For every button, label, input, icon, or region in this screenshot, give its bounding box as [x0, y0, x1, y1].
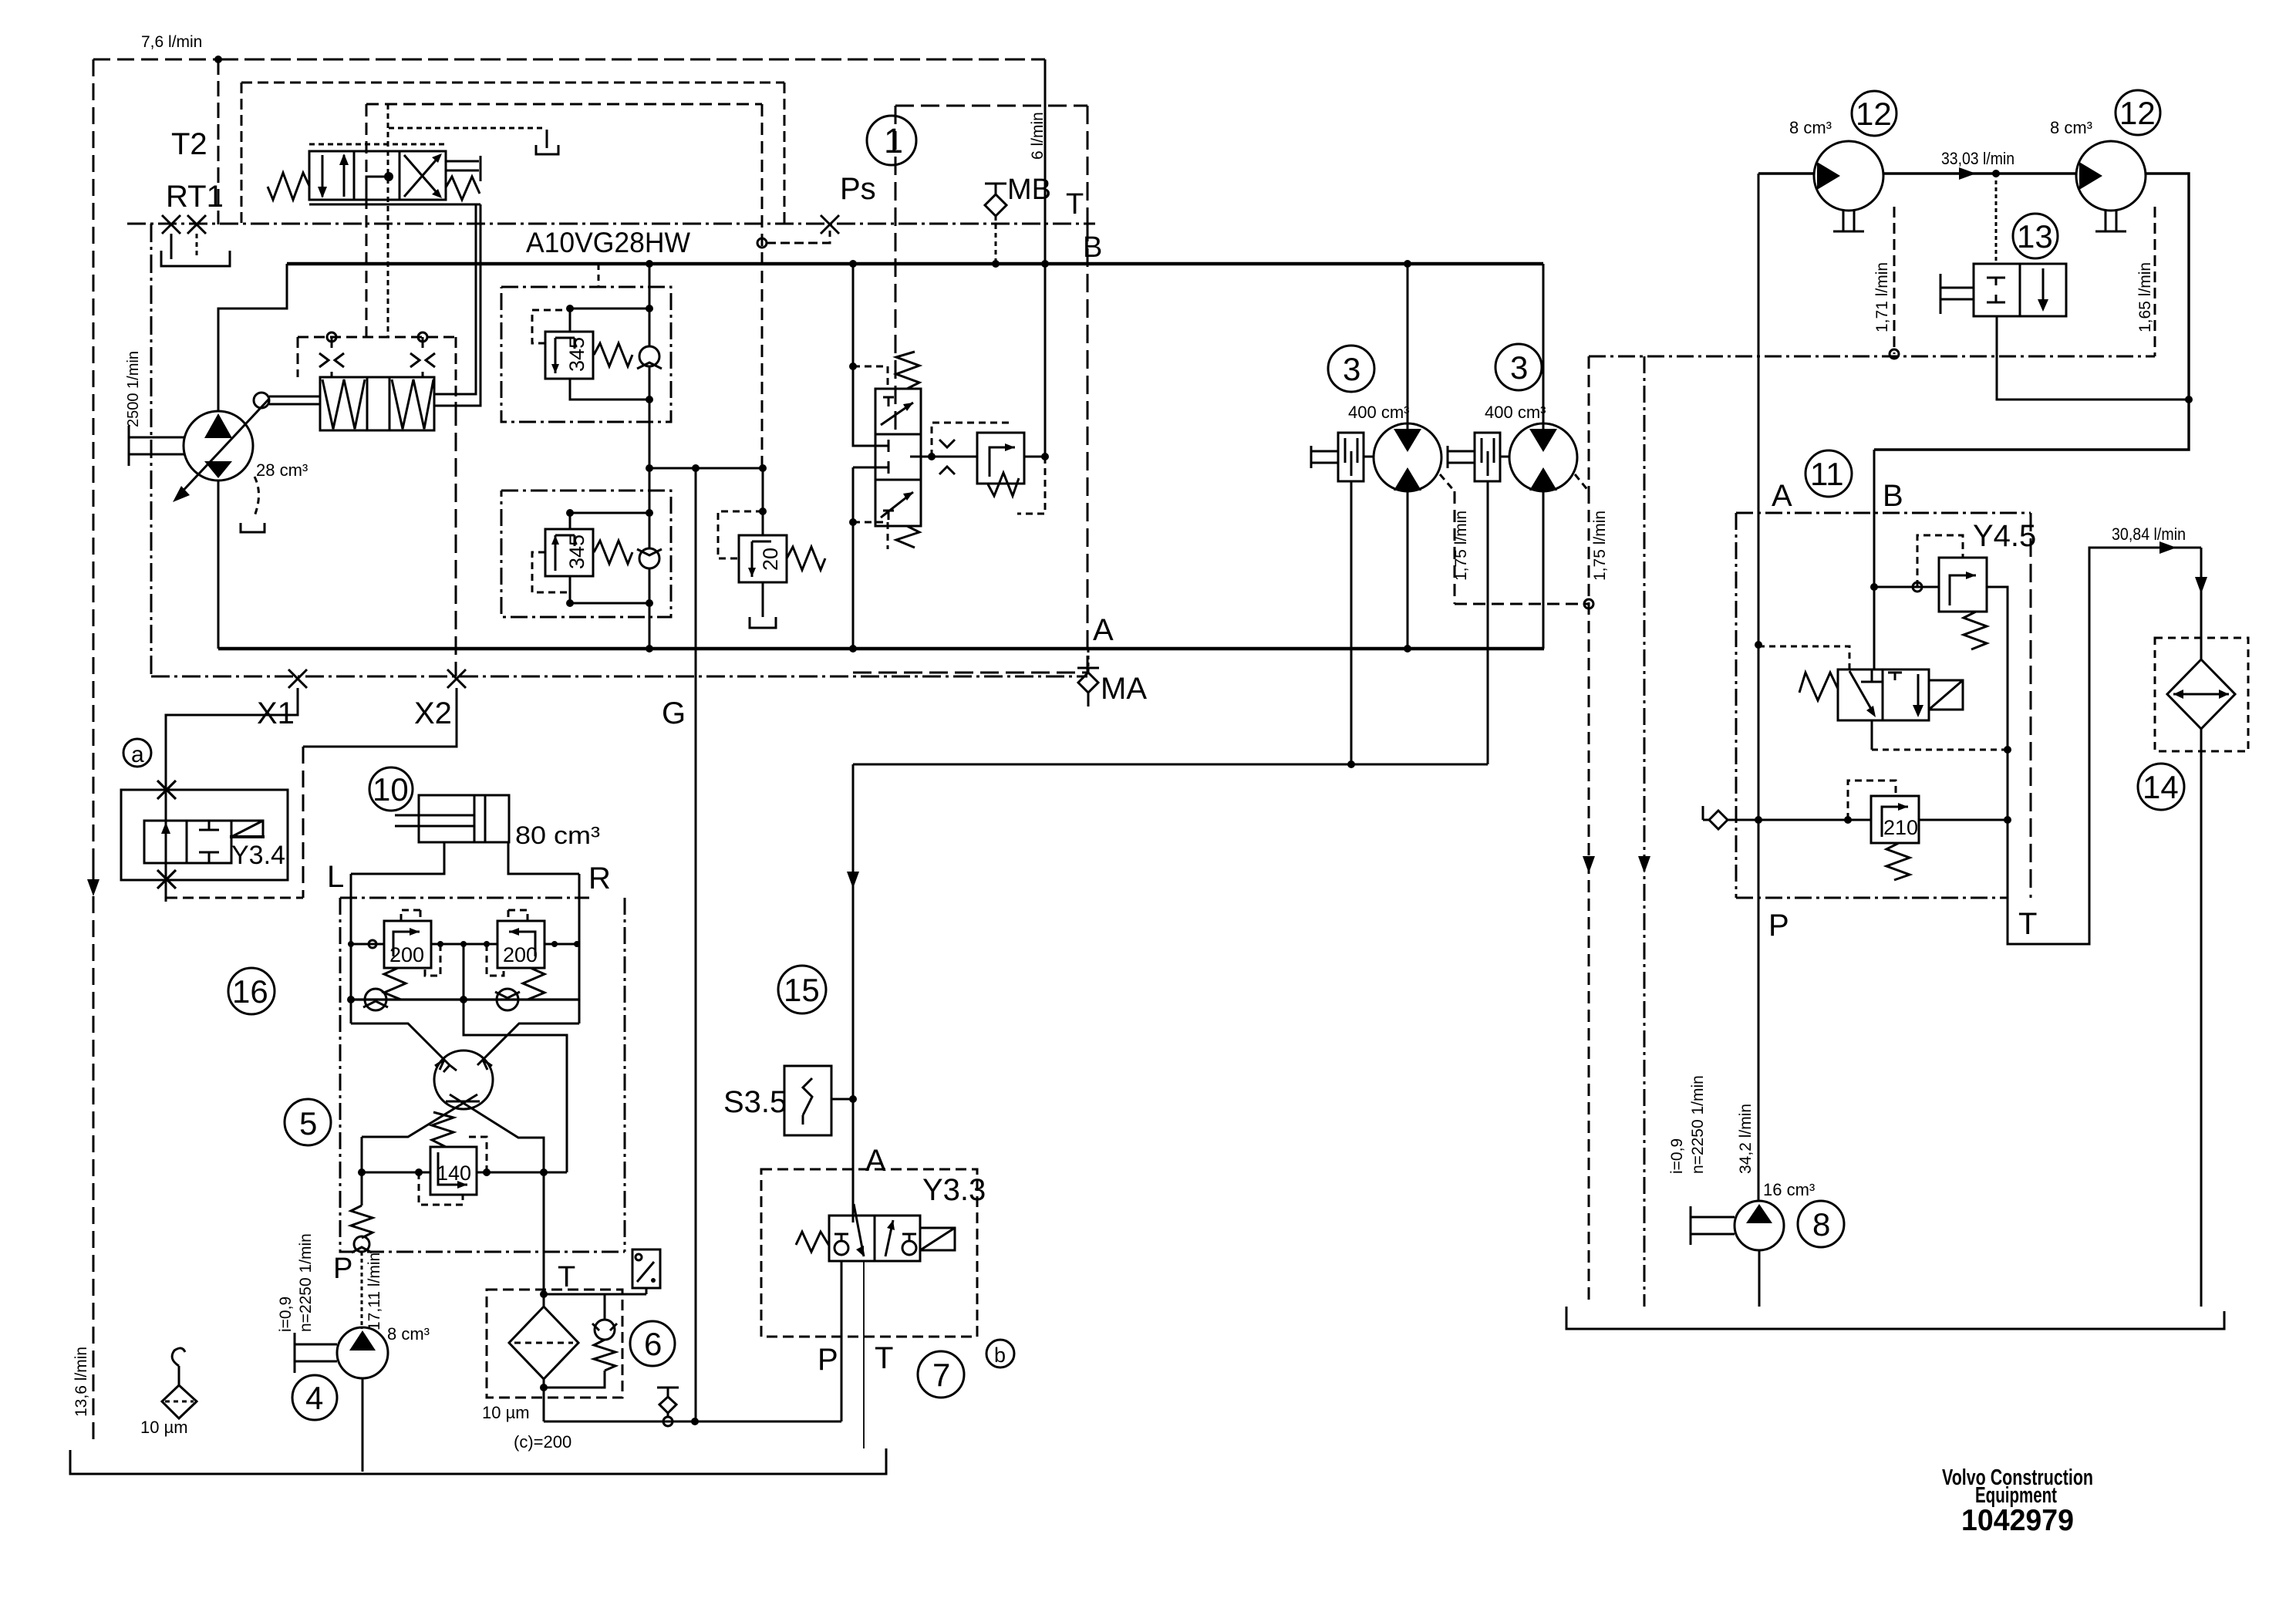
top spring	[896, 352, 919, 389]
wire: motor1 case drain	[1440, 474, 1455, 491]
component: wheel motor 1	[1374, 264, 1441, 649]
component: 3/2 solenoid valve s11	[1758, 646, 2011, 754]
svg-text:15: 15	[784, 972, 820, 1008]
wire: box 16 dash-dot boundary	[340, 898, 625, 1252]
wire: Ps pilot dashed	[767, 231, 830, 243]
right: arrow + check	[902, 1241, 916, 1255]
component: 140 relief	[358, 1112, 567, 1205]
svg-text:10 µm: 10 µm	[140, 1418, 188, 1437]
node A junction dots	[646, 645, 1411, 653]
left section arrows	[322, 155, 324, 197]
svg-text:20: 20	[759, 548, 782, 571]
check line	[351, 998, 579, 1000]
component: tank symbol top right	[389, 127, 544, 130]
component: fan drive pump 8	[1691, 1201, 1784, 1307]
wire: fine dashed box above valve	[309, 143, 446, 146]
svg-text:X1: X1	[257, 696, 295, 730]
svg-text:2500 1/min: 2500 1/min	[125, 351, 142, 427]
svg-text:10: 10	[373, 771, 409, 808]
wire: outer left dashed boundary	[93, 59, 218, 1441]
wire: bottom return line	[544, 1421, 841, 1423]
wire: pump to A line	[217, 480, 220, 649]
label circled a	[123, 739, 151, 767]
component: return filter 6	[482, 1290, 622, 1452]
center section: blocked + L path	[366, 177, 387, 199]
component: pump shaft	[129, 426, 185, 466]
svg-text:b: b	[994, 1344, 1006, 1367]
springs inside	[322, 379, 365, 429]
component: fan motor 12b	[2076, 141, 2146, 231]
svg-text:200: 200	[503, 943, 538, 966]
svg-text:A: A	[1093, 613, 1114, 647]
svg-text:G: G	[662, 696, 686, 730]
node B junction dots	[646, 260, 1411, 268]
component: MA test point	[1087, 649, 1090, 668]
svg-text:X2: X2	[414, 696, 452, 730]
component: breather 10um	[140, 1348, 197, 1437]
output to A	[853, 467, 875, 469]
component: P check valve + spring to pump4	[351, 1172, 373, 1329]
svg-text:33,03 l/min: 33,03 l/min	[1941, 149, 2014, 168]
svg-text:30,84 l/min: 30,84 l/min	[2112, 524, 2186, 544]
svg-text:1,75 l/min: 1,75 l/min	[1452, 511, 1470, 581]
svg-text:8 cm³: 8 cm³	[1789, 118, 1832, 137]
component: 20 bar boost relief	[718, 468, 825, 628]
svg-text:345: 345	[565, 534, 588, 569]
label circled 10	[369, 767, 413, 811]
wire: 12b to right down	[1874, 174, 2189, 450]
svg-text:(c)=200: (c)=200	[514, 1432, 571, 1452]
component: 345 relief + check assembly 1	[532, 264, 662, 403]
component: test point on return	[657, 1388, 679, 1397]
svg-text:140: 140	[437, 1162, 471, 1185]
svg-text:T: T	[875, 1341, 893, 1375]
wire: mid junction line to G and 20-relief	[649, 400, 763, 468]
svg-text:P: P	[818, 1343, 838, 1377]
wire: A10VG block boundary dash-dot	[127, 224, 1095, 676]
component: gearbox 2	[1448, 433, 1510, 481]
svg-text:Ps: Ps	[840, 172, 876, 206]
label circled 3 first	[1328, 346, 1374, 392]
component: steering orbital + X lines	[351, 1000, 579, 1172]
svg-text:17,11 l/min: 17,11 l/min	[366, 1253, 383, 1330]
label circled 15	[778, 966, 826, 1013]
component: steering cylinder 80cm3	[395, 795, 600, 849]
dashed pilot	[532, 310, 567, 343]
springs left	[268, 173, 309, 200]
svg-text:5: 5	[299, 1105, 317, 1141]
svg-text:13,6 l/min: 13,6 l/min	[72, 1347, 90, 1417]
svg-text:n=2250 1/min: n=2250 1/min	[297, 1233, 315, 1332]
node X2	[447, 669, 466, 688]
svg-text:1,75 l/min: 1,75 l/min	[1591, 511, 1609, 581]
svg-text:11: 11	[1810, 456, 1844, 492]
wire: pump12a drain	[1893, 207, 1896, 354]
wire: dashed stub from B to box1	[598, 264, 600, 287]
svg-text:10 µm: 10 µm	[482, 1403, 530, 1422]
svg-text:i=0,9: i=0,9	[277, 1297, 295, 1332]
wire: cylinder ports to steering unit	[351, 842, 579, 874]
wire: drain dashed from valve to 20-relief	[761, 104, 764, 468]
wire: pump12 line	[1758, 172, 2076, 174]
label circled 8	[1798, 1201, 1844, 1247]
node RT1 plugged ports X X	[162, 215, 206, 259]
svg-text:P: P	[333, 1253, 352, 1285]
svg-text:14: 14	[2143, 769, 2179, 805]
component: pressure cut-off valve (section 1)	[849, 264, 1049, 649]
wire: dash-dot box 345 assembly 1	[501, 287, 671, 422]
svg-text:MA: MA	[1101, 672, 1147, 706]
component: relief Y4.5	[1874, 535, 2008, 750]
wire: dash-dot box 345 assembly 2	[501, 491, 671, 617]
svg-text:16 cm³: 16 cm³	[1763, 1180, 1815, 1199]
component: swashplate feedback lever	[254, 393, 269, 408]
wire: RT1 bracket	[161, 251, 230, 266]
svg-text:P: P	[1768, 909, 1789, 943]
svg-text:a: a	[131, 742, 144, 767]
wire: A main line	[218, 647, 1544, 651]
svg-text:A: A	[865, 1144, 886, 1178]
wire: pump setting bracket	[255, 477, 259, 516]
wire: T to filter	[543, 1172, 545, 1294]
spring left	[796, 1232, 829, 1252]
check valve	[639, 548, 659, 568]
label circled 6	[630, 1321, 675, 1366]
svg-text:16: 16	[232, 973, 268, 1010]
label circled 1	[867, 116, 916, 165]
wire: pump to B line	[218, 264, 287, 412]
component: pilot 4/3 proportional valve (top)	[268, 151, 480, 200]
svg-text:400 cm³: 400 cm³	[1485, 403, 1546, 422]
node Ps plugged port	[821, 215, 839, 234]
wire: right outer dashed boundary	[1589, 356, 2155, 1307]
svg-text:8 cm³: 8 cm³	[2050, 118, 2092, 137]
label circled 12 second	[2116, 90, 2160, 135]
svg-text:B: B	[1083, 231, 1102, 264]
wire: T2 feed dashed vertical	[217, 59, 220, 224]
svg-text:8: 8	[1812, 1206, 1830, 1243]
wire: B main line	[287, 262, 1543, 266]
component: Y3.4 solenoid valve	[121, 781, 303, 898]
component: 210 relief	[1703, 781, 2011, 880]
label circled 4	[292, 1375, 337, 1420]
wire: X1 to Y3.4	[166, 688, 298, 902]
wire: motor12b drain	[2154, 207, 2156, 356]
wire: vertical from top line to section1 relief	[1044, 59, 1047, 457]
wire: T return path to filter	[2008, 548, 2201, 944]
svg-text:R: R	[588, 862, 611, 895]
svg-text:7,6 l/min: 7,6 l/min	[141, 33, 202, 51]
svg-text:Y3.4: Y3.4	[231, 841, 285, 870]
wire: G line	[695, 468, 697, 1421]
component: gearbox 1	[1311, 433, 1374, 481]
svg-text:S3.5: S3.5	[723, 1085, 787, 1119]
component: control spool with centering springs	[320, 377, 434, 430]
svg-text:8 cm³: 8 cm³	[387, 1324, 430, 1344]
svg-text:T: T	[2018, 907, 2037, 941]
label circled 5	[285, 1099, 331, 1145]
svg-text:Y3.3: Y3.3	[922, 1173, 986, 1207]
svg-text:1: 1	[884, 121, 903, 160]
wire: under pilot valve	[309, 204, 480, 206]
svg-text:400 cm³: 400 cm³	[1348, 403, 1409, 422]
svg-text:6: 6	[644, 1326, 662, 1362]
component: thermal bypass contact	[544, 1249, 660, 1294]
svg-text:200: 200	[389, 943, 424, 966]
svg-text:i=0,9: i=0,9	[1668, 1138, 1686, 1174]
mid port to relief	[910, 456, 932, 458]
wire: X2 down	[303, 688, 457, 747]
label circled 7	[918, 1351, 964, 1398]
svg-text:L: L	[327, 860, 344, 894]
component: fan pump 12a	[1814, 141, 1883, 231]
svg-text:1042979: 1042979	[1961, 1504, 2074, 1537]
ports	[841, 1261, 843, 1421]
svg-text:210: 210	[1883, 816, 1918, 839]
relief 200 left	[384, 921, 431, 968]
wire: arrow on left boundary	[93, 852, 95, 879]
top line with reliefs	[351, 943, 579, 946]
wire: motor drain collector	[853, 764, 1488, 766]
svg-text:13: 13	[2017, 218, 2053, 255]
wire: section 11 dash-dot box	[1736, 513, 2031, 898]
node X1	[288, 669, 307, 688]
component: filter 14	[2155, 638, 2248, 1307]
svg-text:7: 7	[932, 1357, 950, 1393]
svg-text:4: 4	[305, 1380, 323, 1416]
wire: section 1 dashed box	[853, 106, 1087, 673]
label circled 16	[228, 968, 275, 1014]
svg-text:Y4.5: Y4.5	[1973, 519, 2036, 553]
svg-text:34,2 l/min: 34,2 l/min	[1737, 1104, 1755, 1174]
svg-text:n=2250 1/min: n=2250 1/min	[1689, 1075, 1707, 1174]
relief valve box	[977, 433, 1024, 484]
svg-text:1,71 l/min: 1,71 l/min	[1873, 262, 1891, 332]
label circled 13	[2013, 214, 2058, 258]
proportional actuator right	[446, 156, 480, 181]
svg-text:80 cm³: 80 cm³	[515, 821, 600, 849]
spring right	[446, 177, 480, 200]
label circled 14	[2138, 764, 2184, 810]
svg-text:3: 3	[1343, 351, 1360, 387]
component: 345 relief + check assembly 2	[532, 468, 662, 649]
svg-text:345: 345	[565, 337, 588, 372]
wire: top supply line 7,6 l/min	[218, 59, 1045, 61]
wire: A line down from pump12a	[1758, 174, 1760, 1202]
component: damping orifices	[327, 332, 336, 342]
component: fan bypass valve 13	[1940, 174, 2189, 400]
top section	[883, 397, 894, 406]
component: wheel motor 2	[1509, 264, 1577, 649]
svg-text:A: A	[1772, 479, 1792, 513]
label circled b	[986, 1340, 1014, 1367]
bottom spring	[896, 526, 919, 548]
middle section	[875, 440, 888, 452]
wire: A branch down to Y3.3	[852, 764, 855, 1222]
svg-text:T2: T2	[171, 127, 207, 161]
svg-text:12: 12	[2119, 95, 2156, 131]
component: pressure switch S3.5	[723, 1066, 853, 1135]
left: check ball w/ spring arrowthrough	[834, 1241, 848, 1255]
svg-text:B: B	[1883, 479, 1903, 513]
svg-text:A10VG28HW: A10VG28HW	[526, 227, 690, 258]
wire: B return into section 11	[1873, 450, 1876, 669]
wire: bottom right bracket	[1566, 1307, 2224, 1329]
bottom section	[881, 492, 913, 518]
wire: pilot outputs double line down	[434, 204, 476, 394]
component: variable displacement pump 28cm3	[173, 399, 269, 502]
svg-text:3: 3	[1510, 349, 1528, 386]
svg-text:12: 12	[1856, 96, 1892, 132]
right section X arrows	[404, 155, 440, 197]
component: steering unit manifold (16)	[347, 874, 580, 1023]
component: MB test point	[985, 184, 1006, 194]
wire: motor2 case drain	[1575, 474, 1589, 491]
component: charge pump 4	[295, 1327, 388, 1472]
label circled 12 first	[1852, 91, 1896, 136]
svg-text:RT1: RT1	[166, 180, 224, 214]
wire: bottom left bracket	[70, 1448, 886, 1474]
svg-text:T: T	[1066, 188, 1084, 221]
check valve	[639, 346, 659, 366]
component: Y3.3 solenoid valve (7)	[761, 1169, 986, 1448]
wire: dashed pilots from valve to control spool	[366, 104, 368, 337]
wire: top dashed box around pilot valve	[241, 83, 784, 223]
wire: dashed pilot box around control spool	[298, 337, 456, 407]
label circled 3 second	[1495, 344, 1542, 390]
svg-text:1,65 l/min: 1,65 l/min	[2136, 262, 2154, 332]
label circled 11	[1805, 450, 1852, 497]
relief 200 right	[497, 921, 544, 968]
wire: drain collector dashed	[1455, 603, 1589, 605]
svg-text:28 cm³: 28 cm³	[256, 460, 308, 480]
wire: long dash X2 boundary edge	[455, 407, 457, 676]
